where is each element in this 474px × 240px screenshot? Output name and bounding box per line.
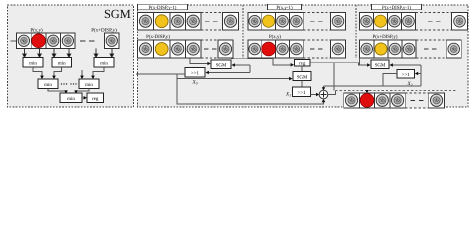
svg-text:reg: reg (299, 62, 306, 67)
svg-text:>>1: >>1 (191, 71, 200, 77)
pixel gray (172, 43, 184, 55)
pixel gray (139, 43, 151, 55)
label box P(x-DISP,y-1) (138, 4, 188, 10)
pixel gray (361, 43, 373, 55)
pixel gray 3 (62, 35, 73, 46)
pixel gray (187, 15, 199, 27)
pixel red P(x,y) (262, 42, 276, 56)
last cell (452, 13, 468, 31)
ellipsis dashes (80, 40, 86, 42)
last cell (105, 33, 120, 49)
pixel strip cells (17, 33, 76, 49)
dashed gap (416, 12, 452, 14)
reg box (87, 93, 104, 103)
wire SGM2 to shift2 (301, 81, 303, 88)
svg-text:min: min (29, 61, 37, 67)
strip row y-1 (248, 13, 303, 31)
dashed gap (201, 12, 223, 14)
pixel gray 1 (18, 35, 29, 46)
wires min L1 to L2 (33, 67, 104, 77)
dots between L2 (61, 83, 77, 84)
last cell (331, 13, 346, 31)
min box 2 (52, 58, 72, 68)
svg-text:P(x-DISP,y): P(x-DISP,y) (146, 34, 170, 40)
svg-text:P(x+DISP,y-1): P(x+DISP,y-1) (382, 5, 411, 11)
last cell (223, 13, 239, 31)
svg-text:SGM: SGM (375, 63, 386, 69)
last cell (218, 40, 233, 58)
reg box (295, 60, 311, 67)
pixel gray (361, 15, 373, 27)
dashed gap (201, 39, 218, 41)
pixel gray (403, 43, 415, 55)
adder top input (323, 86, 325, 89)
long wire to SGM2 (177, 78, 290, 80)
pixel gray last (106, 35, 117, 46)
wire reg to SGM2 (301, 66, 303, 72)
min box 3 (94, 58, 114, 68)
pixel gray (187, 43, 199, 55)
shift box mid (185, 68, 205, 78)
pixel red P(x,y) (32, 34, 46, 48)
wires L2 to L3 (48, 89, 89, 93)
dashed separator 2 (355, 5, 357, 58)
pixel yellow (375, 43, 387, 55)
min box L2 right (79, 79, 99, 89)
svg-text:SGM: SGM (104, 7, 131, 21)
arrows strip to min row (23, 49, 114, 58)
wire into shift3 right (417, 73, 421, 75)
wire strip to SGM (190, 58, 208, 64)
SGM box 3 (371, 60, 389, 69)
min box 1 (23, 58, 43, 68)
svg-text:>>1: >>1 (297, 90, 306, 96)
label box P(x,y-1) (268, 4, 302, 10)
pixel gray (392, 94, 404, 106)
strip row y-1 (138, 13, 202, 31)
SGM box 2 (293, 72, 311, 81)
wire into SGM3 right (392, 64, 421, 66)
min box L3 (60, 93, 82, 103)
SGM module dashed box (left) (8, 5, 134, 107)
wire SGM out to reg2 (231, 59, 291, 65)
pixel gray (249, 43, 261, 55)
pixel gray (389, 15, 401, 27)
svg-text:SGM: SGM (216, 63, 227, 69)
pixel gray (376, 94, 388, 106)
wire min to reg (82, 97, 85, 99)
svg-text:P(x-DISP,y-1): P(x-DISP,y-1) (149, 5, 177, 11)
pixel gray (345, 94, 357, 106)
pixel gray (403, 15, 415, 27)
pixel gray 2 (48, 35, 59, 46)
adder (319, 90, 328, 99)
label box P(x+DISP,y-1) (372, 4, 422, 10)
pixel yellow (155, 43, 168, 56)
wire shift2 to adder (311, 94, 318, 96)
shift box 3 (397, 69, 415, 78)
svg-text:reg: reg (92, 97, 99, 102)
arrow into result cell (366, 89, 368, 92)
svg-text:min: min (85, 82, 93, 88)
dashed separator 1 (242, 5, 244, 58)
feedback wire down and along bottom to adder (177, 74, 324, 104)
wire into strip (11, 40, 17, 42)
svg-text:P(x+DISP,y): P(x+DISP,y) (373, 34, 398, 40)
container dashed box (right) (138, 5, 469, 107)
svg-text:P(x,y-1): P(x,y-1) (276, 5, 293, 11)
wire shift out left (136, 73, 185, 75)
last cell (429, 93, 445, 108)
pixel yellow (155, 15, 168, 28)
min box L2 left (38, 79, 58, 89)
X2 wire to adder (324, 85, 422, 87)
strip row y (248, 40, 303, 58)
strip row y-1 (360, 13, 416, 31)
pixel gray (277, 43, 289, 55)
shift3 out left and down (383, 74, 397, 87)
SGM box mid (211, 60, 231, 69)
last cell (331, 40, 346, 58)
svg-text:min: min (44, 82, 52, 88)
result strip cells (344, 93, 406, 108)
svg-text:SGM: SGM (297, 75, 308, 81)
wire reg out (310, 63, 368, 65)
svg-text:min: min (100, 61, 108, 67)
vertical junction wire (420, 65, 422, 86)
strip row y (360, 40, 416, 58)
adder output wire (328, 90, 336, 94)
svg-text:>>1: >>1 (402, 72, 411, 78)
pixel gray (389, 43, 401, 55)
pixel gray (291, 15, 303, 27)
wire into shift right (208, 72, 250, 74)
pixel gray (172, 15, 184, 27)
wire into SGM right (234, 64, 250, 66)
dashed gap (303, 39, 330, 41)
dashed gap (416, 39, 446, 41)
pixel red result (360, 93, 374, 107)
pixel gray (291, 43, 303, 55)
shift box 2 (293, 87, 311, 97)
pixel gray (249, 15, 261, 27)
svg-text:min: min (58, 61, 66, 67)
wire strip down to SGM3 (359, 58, 361, 65)
pixel yellow (263, 15, 275, 27)
last cell (446, 40, 461, 58)
pixel gray (139, 15, 151, 27)
dashed gap (303, 12, 330, 14)
wire reg branch down (333, 63, 335, 91)
strip row y (138, 40, 202, 58)
pixel yellow (374, 15, 386, 27)
svg-text:P(x,y): P(x,y) (269, 34, 281, 40)
svg-text:min: min (67, 96, 75, 102)
pixel gray (277, 15, 289, 27)
dashed gap (405, 93, 428, 108)
